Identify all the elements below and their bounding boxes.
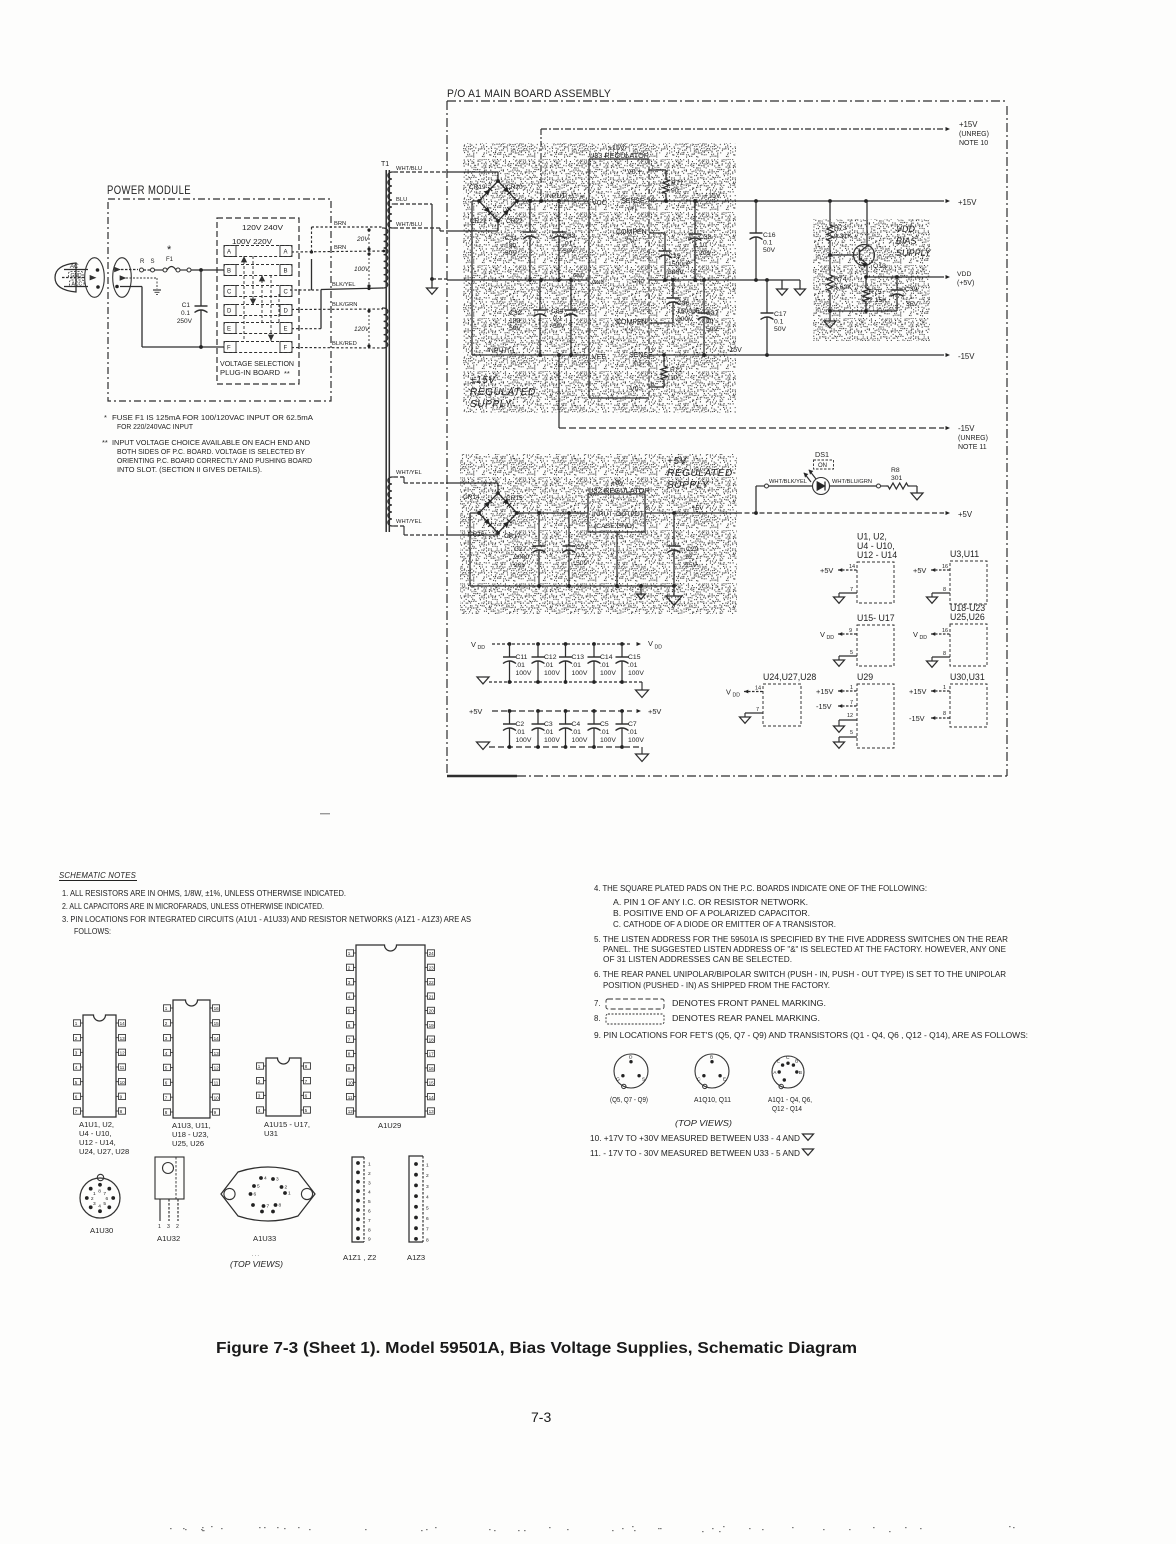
ground symbol right rail 1: [781, 280, 783, 289]
svg-text:3. PIN LOCATIONS FOR INTEGRA: 3. PIN LOCATIONS FOR INTEGRATED CIRCUITS…: [62, 915, 471, 924]
svg-text:8: 8: [98, 1189, 101, 1195]
IC package outline A1U15 group 8 pin DIP: [266, 1058, 301, 1116]
svg-text:100V 220V: 100V 220V: [232, 239, 272, 246]
svg-text:(-): (-): [626, 327, 633, 334]
svg-text:5: 5: [582, 348, 585, 354]
svg-text:A: A: [773, 1070, 777, 1076]
svg-text:120V: 120V: [354, 326, 370, 333]
svg-text:7: 7: [267, 1204, 270, 1210]
svg-text:20V: 20V: [356, 236, 369, 243]
svg-text:+5V: +5V: [667, 456, 688, 467]
ground symbol R8: [916, 486, 918, 493]
svg-text:4: 4: [98, 1203, 101, 1209]
svg-text:.01: .01: [572, 662, 582, 669]
IC package outline A1U30 TO-99 can: [80, 1178, 120, 1218]
svg-text:T1: T1: [381, 161, 389, 168]
svg-text:6: 6: [165, 1080, 168, 1085]
svg-text:20V: 20V: [699, 250, 712, 257]
svg-text:90: 90: [671, 188, 679, 195]
svg-text:100V: 100V: [600, 670, 616, 677]
svg-text:C32: C32: [509, 310, 522, 317]
svg-text:SUPPLY: SUPPLY: [667, 480, 710, 491]
svg-text:NOTE 11: NOTE 11: [958, 444, 987, 451]
svg-text:50V: 50V: [763, 247, 776, 254]
svg-text:5: 5: [368, 1199, 371, 1205]
svg-text:C2: C2: [516, 721, 525, 728]
svg-text:2: 2: [91, 1196, 94, 1202]
wire riser BLK/YEL to E: [320, 290, 322, 329]
svg-text:2. ALL CAPACITORS ARE IN MICR: 2. ALL CAPACITORS ARE IN MICROFARADS, UN…: [62, 902, 324, 911]
svg-text:C14: C14: [600, 654, 613, 661]
wire bridge negative to ground bus: [470, 512, 479, 514]
resistor network A1Z3: [409, 1156, 423, 1242]
svg-text:5: 5: [165, 1066, 168, 1071]
svg-text:INTO SLOT. (SECTION II GIVES: INTO SLOT. (SECTION II GIVES DETAILS).: [117, 465, 262, 474]
IC package outline A1U29 24 pin DIP: [356, 945, 425, 1117]
svg-text:V: V: [913, 630, 918, 639]
wire +5V to DS1: [755, 486, 757, 513]
svg-text:PANEL. THE SUGGESTED LISTEN: PANEL. THE SUGGESTED LISTEN ADDRESS OF "…: [603, 945, 1006, 954]
wire BLK/GRN: [292, 308, 384, 311]
svg-text:.01: .01: [563, 241, 573, 248]
svg-text:1. ALL RESISTORS ARE IN OHMS,: 1. ALL RESISTORS ARE IN OHMS, 1/8W, ±1%,…: [62, 889, 346, 898]
svg-text:(UNREG): (UNREG): [959, 131, 989, 138]
wire -15V sense rail: [649, 354, 944, 356]
IC package outline A1U33 TO-3: [221, 1167, 315, 1221]
wire bridge negative to input minus rail: [472, 200, 479, 202]
svg-text:-15V: -15V: [816, 702, 832, 711]
svg-text:R8: R8: [891, 467, 900, 474]
IC package outline A1U3 group 16 pin DIP: [173, 1000, 210, 1118]
voltage regulator U33: [589, 158, 649, 160]
svg-text:+5V: +5V: [692, 505, 704, 512]
resistor R71: [649, 169, 666, 171]
svg-text:C: C: [697, 1076, 701, 1082]
svg-text:50V: 50V: [505, 250, 518, 257]
svg-text:V: V: [820, 630, 825, 639]
ground symbol +5V rail left: [477, 742, 490, 749]
svg-text:9: 9: [214, 1110, 217, 1115]
svg-text:12: 12: [348, 1109, 354, 1114]
svg-text:INPUT VOLTAGE CHOICE AVAILA: INPUT VOLTAGE CHOICE AVAILABLE ON EACH E…: [112, 438, 310, 447]
svg-text:16: 16: [214, 1006, 220, 1011]
svg-text:11. - 17V TO - 30V MEASURE: 11. - 17V TO - 30V MEASURED BETWEEN U33 …: [590, 1149, 800, 1158]
svg-text:WHT/BLK/YEL: WHT/BLK/YEL: [769, 479, 807, 485]
svg-text:6: 6: [75, 1095, 78, 1100]
svg-text:A1Z1 , Z2: A1Z1 , Z2: [343, 1253, 376, 1262]
svg-text:+5V: +5V: [913, 566, 926, 575]
node junction at C1 top: [199, 268, 203, 272]
svg-text:COMPEN: COMPEN: [616, 319, 647, 326]
wire BLK/RED: [292, 347, 384, 350]
svg-text:2: 2: [258, 1079, 261, 1084]
svg-text:E: E: [723, 1076, 726, 1082]
transformer T1 primary winding 1: [384, 228, 388, 288]
svg-text:U32 REGULATOR: U32 REGULATOR: [588, 486, 650, 495]
svg-text:3: 3: [165, 1036, 168, 1041]
svg-text:+: +: [580, 194, 584, 201]
svg-text:C4: C4: [572, 721, 581, 728]
board jumper links: [243, 256, 245, 341]
svg-text:8: 8: [943, 587, 946, 593]
ground pin U18-U23 U25 U26 pin 8: [932, 656, 950, 658]
ground symbol VDD rail left: [477, 677, 489, 684]
svg-text:4: 4: [258, 1108, 261, 1113]
svg-text:A1U1, U2,: A1U1, U2,: [79, 1120, 114, 1129]
svg-text:P/O A1 MAIN BOARD ASSEMBLY: P/O A1 MAIN BOARD ASSEMBLY: [447, 88, 611, 100]
svg-text:F: F: [284, 346, 288, 352]
svg-text:C27: C27: [514, 546, 527, 553]
svg-text:.01: .01: [572, 729, 582, 736]
svg-text:12: 12: [120, 1051, 126, 1056]
svg-text:R72: R72: [670, 367, 683, 374]
svg-text:4: 4: [165, 1051, 168, 1056]
svg-text:C17: C17: [774, 311, 787, 318]
capacitor C35: [649, 232, 665, 234]
svg-text:BLU: BLU: [396, 197, 407, 203]
svg-text:(+5V): (+5V): [957, 280, 974, 287]
svg-text:CR17: CR17: [504, 533, 521, 540]
svg-text:1: 1: [258, 1064, 261, 1069]
svg-text:15: 15: [429, 1080, 435, 1085]
ground rail right: [649, 279, 800, 281]
svg-text:A1Z3: A1Z3: [407, 1253, 425, 1262]
wire U32 output rail: [645, 512, 737, 514]
ground symbol bias supply: [829, 311, 831, 321]
svg-text:U30,U31: U30,U31: [950, 672, 985, 682]
svg-text:B: B: [710, 1055, 713, 1061]
svg-text:GND: GND: [71, 273, 83, 279]
ground bus +5V supply: [470, 585, 674, 587]
svg-text:DD: DD: [827, 635, 835, 641]
svg-text:100V: 100V: [572, 737, 588, 744]
svg-text:100V: 100V: [572, 670, 588, 677]
svg-text:19: 19: [429, 1023, 435, 1028]
svg-text:.01: .01: [544, 729, 554, 736]
svg-text:8: 8: [279, 1203, 282, 1209]
svg-text:U24,U27,U28: U24,U27,U28: [763, 672, 816, 682]
svg-text:1500pF: 1500pF: [677, 308, 700, 315]
svg-text:INPUT(-): INPUT(-): [487, 347, 514, 354]
svg-text:WHT/BLU: WHT/BLU: [396, 166, 422, 172]
wire U32 case ground: [616, 532, 618, 586]
svg-text:BLK/YEL: BLK/YEL: [332, 282, 356, 288]
svg-text:5: 5: [348, 1009, 351, 1014]
svg-text:B: B: [795, 1058, 798, 1064]
svg-text:9: 9: [348, 1066, 351, 1071]
svg-text:+ C29: + C29: [680, 546, 699, 553]
svg-text:301: 301: [891, 475, 903, 482]
svg-text:A1Q10, Q11: A1Q10, Q11: [694, 1097, 731, 1104]
svg-text:7: 7: [850, 587, 853, 593]
svg-text:.01: .01: [628, 729, 638, 736]
svg-text:5: 5: [850, 650, 853, 656]
connector P1: [85, 258, 105, 298]
svg-text:+5V: +5V: [469, 707, 482, 716]
svg-text:GND: GND: [573, 273, 585, 279]
svg-text:POSITION (PUSHED - IN) AS S: POSITION (PUSHED - IN) AS SHIPPED FROM T…: [603, 981, 830, 990]
svg-text:100V: 100V: [516, 737, 532, 744]
svg-text:+15V: +15V: [816, 687, 834, 696]
svg-text:5: 5: [103, 1201, 106, 1207]
svg-text:A: A: [227, 250, 231, 256]
svg-text:6: 6: [348, 1023, 351, 1028]
svg-text:DD: DD: [733, 693, 741, 699]
svg-text:(-): (-): [634, 360, 641, 367]
IC package outline A1U1 group 14 pin DIP: [83, 1015, 116, 1117]
svg-text:(+): (+): [626, 237, 635, 244]
svg-text:GND: GND: [632, 279, 644, 285]
svg-text:11: 11: [120, 1065, 125, 1070]
svg-text:CR14: CR14: [463, 494, 480, 501]
transistor outline Q5 Q7-Q9: [614, 1054, 648, 1088]
svg-text:4. THE SQUARE PLATED PADS: 4. THE SQUARE PLATED PADS ON THE P.C. BO…: [594, 884, 927, 893]
wire bridge input 2: [447, 230, 498, 232]
svg-text:10. +17V TO +30V MEASURED: 10. +17V TO +30V MEASURED BETWEEN U33 - …: [590, 1134, 800, 1143]
svg-text:.01: .01: [628, 662, 638, 669]
svg-text:U33 REGULATOR: U33 REGULATOR: [589, 151, 649, 160]
svg-text:A1U15 - U17,: A1U15 - U17,: [264, 1120, 310, 1129]
svg-text:8: 8: [943, 651, 946, 657]
svg-text:ON: ON: [818, 463, 827, 469]
svg-text:VCC: VCC: [592, 200, 607, 207]
svg-text:8: 8: [165, 1110, 168, 1115]
ground pin U15-U17 pin 5: [839, 655, 857, 657]
svg-text:U24, U27, U28: U24, U27, U28: [79, 1147, 129, 1156]
wire +15V unreg riser: [540, 129, 542, 201]
svg-text:4: 4: [348, 994, 351, 999]
svg-text:14: 14: [849, 564, 855, 570]
svg-text:8.: 8.: [594, 1014, 601, 1023]
svg-text:6: 6: [106, 1196, 109, 1202]
svg-text:250V: 250V: [177, 318, 193, 325]
svg-text:FUSE F1 IS 125mA FOR 100/120VA: FUSE F1 IS 125mA FOR 100/120VAC INPUT OR…: [112, 413, 313, 422]
svg-text:BLK/RED: BLK/RED: [332, 341, 357, 347]
svg-text:C13: C13: [572, 654, 585, 661]
terminal row F: [224, 342, 292, 353]
svg-text:18: 18: [429, 1037, 435, 1042]
output +15V unreg: [946, 127, 951, 131]
svg-text:300V: 300V: [677, 316, 693, 323]
svg-text:7: 7: [75, 1109, 78, 1114]
svg-text:R75: R75: [869, 289, 882, 296]
svg-text:100V: 100V: [544, 670, 560, 677]
wire BLK/YEL: [290, 289, 312, 291]
svg-text:C11: C11: [516, 654, 528, 661]
svg-text:13: 13: [429, 1109, 435, 1114]
svg-text:180: 180: [505, 243, 517, 250]
shaded region +5V regulated supply: [460, 454, 737, 614]
svg-text:0.1: 0.1: [763, 240, 773, 247]
svg-text:9: 9: [849, 628, 852, 634]
svg-text:BIAS: BIAS: [896, 236, 917, 246]
svg-text:R74: R74: [834, 276, 847, 283]
svg-text:3: 3: [167, 1224, 170, 1230]
output VDD: [946, 275, 951, 279]
transistor Q13: [830, 254, 857, 256]
svg-text:DS1: DS1: [815, 450, 829, 459]
svg-text:A: A: [284, 250, 288, 256]
AC inlet plug: [55, 263, 76, 292]
svg-text:F: F: [227, 346, 231, 352]
svg-text:7: 7: [426, 1227, 429, 1233]
output +5V: [946, 511, 951, 515]
terminal row A: [224, 246, 292, 257]
svg-text:E: E: [227, 327, 231, 333]
svg-text:7.: 7.: [594, 999, 601, 1008]
svg-text:16: 16: [429, 1066, 435, 1071]
svg-text:5: 5: [426, 1205, 429, 1211]
svg-text:CR15: CR15: [506, 495, 523, 502]
svg-text:2000: 2000: [514, 554, 529, 561]
svg-text:3: 3: [620, 535, 623, 541]
VDD bypass ground rail: [489, 681, 642, 683]
svg-text:A1U29: A1U29: [378, 1121, 401, 1130]
svg-text:SCHEMATIC NOTES: SCHEMATIC NOTES: [59, 870, 136, 880]
ground symbol VDD rail right: [641, 682, 643, 690]
wire VDD rail: [866, 276, 944, 278]
svg-text:U12 - U14,: U12 - U14,: [79, 1138, 116, 1147]
wire riser A to BRN upper: [311, 227, 313, 252]
svg-text:50V: 50V: [509, 325, 522, 332]
svg-text:+5V: +5V: [648, 707, 661, 716]
svg-text:U29: U29: [857, 672, 873, 682]
svg-text:4: 4: [75, 1065, 78, 1070]
svg-text:V0 +: V0 +: [627, 169, 642, 176]
svg-text:DD: DD: [478, 645, 486, 651]
svg-text:A1Q1 - Q4, Q6,: A1Q1 - Q4, Q6,: [768, 1097, 812, 1104]
svg-text:INPUT: INPUT: [592, 511, 612, 518]
svg-text:WHT/BLU: WHT/BLU: [396, 222, 422, 228]
svg-text:1: 1: [165, 1006, 168, 1011]
svg-text:SUPPLY: SUPPLY: [896, 248, 932, 258]
output +15V: [946, 199, 951, 203]
svg-text:15: 15: [214, 1021, 220, 1026]
svg-text:2.15K: 2.15K: [869, 297, 887, 304]
connector J1: [113, 258, 132, 298]
voltage regulator U32: [588, 494, 645, 532]
svg-text:+15V: +15V: [909, 687, 927, 696]
bridge rectifier CR14 CR15 CR16 CR17: [479, 493, 517, 533]
svg-text:.01: .01: [516, 729, 526, 736]
svg-text:C12: C12: [544, 654, 557, 661]
svg-text:-15V: -15V: [958, 352, 975, 361]
svg-text:7-3: 7-3: [531, 1409, 551, 1425]
svg-text:C: C: [284, 290, 289, 296]
svg-text:C28: C28: [576, 544, 589, 551]
svg-text:9: 9: [120, 1095, 123, 1100]
svg-text:U25,U26: U25,U26: [950, 612, 985, 622]
svg-text:.01: .01: [600, 729, 610, 736]
svg-text:3: 3: [258, 1094, 261, 1099]
svg-text:5: 5: [305, 1108, 308, 1113]
svg-text:23: 23: [429, 966, 435, 971]
svg-text:PLUG-IN BOARD: PLUG-IN BOARD: [220, 368, 280, 377]
svg-text:4: 4: [426, 1195, 429, 1201]
svg-text:U25, U26: U25, U26: [172, 1139, 204, 1148]
svg-text:+15V: +15V: [704, 193, 721, 200]
svg-text:COMPEN: COMPEN: [616, 229, 647, 236]
svg-text:7: 7: [651, 348, 654, 354]
svg-text:C31: C31: [505, 235, 518, 242]
+5V rail: [517, 512, 588, 514]
terminal row B: [224, 265, 292, 276]
ground rail left: [447, 279, 589, 281]
svg-text:+15V: +15V: [958, 198, 977, 207]
svg-text:GND: GND: [592, 280, 604, 286]
transistor outline A1Q10 Q11: [695, 1054, 729, 1088]
svg-text:BRN: BRN: [334, 221, 346, 227]
svg-text:CR19: CR19: [469, 184, 486, 191]
svg-text:E: E: [284, 327, 288, 333]
svg-text:0.1: 0.1: [576, 552, 586, 559]
svg-text:.01: .01: [544, 662, 554, 669]
svg-text:16: 16: [942, 564, 948, 570]
svg-text:WHT/YEL: WHT/YEL: [396, 470, 423, 476]
IC package outline A1U32 TO-220: [155, 1157, 184, 1199]
svg-text:8: 8: [368, 1227, 371, 1233]
svg-text:1: 1: [288, 1191, 291, 1197]
label GND front panel marking: [69, 272, 84, 279]
svg-text:C34: C34: [551, 308, 564, 315]
svg-text:AC: AC: [69, 264, 79, 270]
svg-text:14: 14: [214, 1036, 220, 1041]
svg-text:2: 2: [426, 1173, 429, 1179]
svg-text:1500pF: 1500pF: [668, 261, 691, 268]
resistor network A1Z1 A1Z2: [352, 1157, 364, 1242]
svg-text:REGULATED: REGULATED: [667, 468, 733, 479]
terminal row E: [224, 323, 292, 334]
svg-text:7: 7: [850, 700, 853, 706]
transistor outline A1Q1-Q4 Q6 Q12-Q14: [772, 1056, 804, 1088]
svg-text:14: 14: [755, 686, 761, 692]
svg-text:12: 12: [214, 1066, 220, 1071]
input minus rail: [472, 354, 589, 356]
svg-text:7: 7: [103, 1191, 106, 1197]
svg-text:U15- U17: U15- U17: [857, 613, 895, 623]
svg-text:. . .: . . .: [252, 1252, 259, 1258]
svg-text:INPUT(+): INPUT(+): [545, 193, 574, 200]
svg-text:A1U32: A1U32: [157, 1234, 180, 1243]
svg-text:4: 4: [368, 1190, 371, 1196]
bridge rectifier CR19 CR20 CR21 CR22: [479, 181, 517, 221]
svg-text:+5V: +5V: [958, 510, 973, 519]
svg-text:6. THE REAR PANEL UNIPOLAR: 6. THE REAR PANEL UNIPOLAR/BIPOLAR SWITC…: [594, 970, 1006, 979]
svg-text:10: 10: [214, 1095, 220, 1100]
svg-text:2: 2: [285, 1185, 288, 1191]
svg-text:7: 7: [756, 707, 759, 713]
svg-text:*: *: [104, 413, 107, 422]
svg-text:(TOP VIEWS): (TOP VIEWS): [230, 1260, 283, 1269]
svg-text:+5V: +5V: [820, 566, 833, 575]
svg-text:OF 31 LISTEN ADDRESSES CAN: OF 31 LISTEN ADDRESSES CAN BE SELECTED.: [603, 955, 792, 964]
svg-text:VOLTAGE SELECTION: VOLTAGE SELECTION: [220, 359, 294, 368]
svg-text:U31: U31: [264, 1129, 278, 1138]
svg-text:16: 16: [942, 628, 948, 634]
ground symbol +5V rail right: [641, 747, 643, 754]
ground pin U1 U2 U4-U10 U12-U14 pin 7: [839, 592, 857, 594]
svg-text:2: 2: [165, 1021, 168, 1026]
svg-text:**: **: [102, 438, 108, 447]
svg-text:C5: C5: [600, 721, 609, 728]
svg-text:C: C: [227, 290, 232, 296]
svg-text:7: 7: [368, 1218, 371, 1224]
svg-text:C1: C1: [182, 302, 191, 309]
wire +15V sense rail: [649, 200, 944, 202]
svg-text:7: 7: [348, 1037, 351, 1042]
svg-text:3: 3: [368, 1180, 371, 1186]
transformer T1 primary winding 2: [384, 308, 388, 348]
